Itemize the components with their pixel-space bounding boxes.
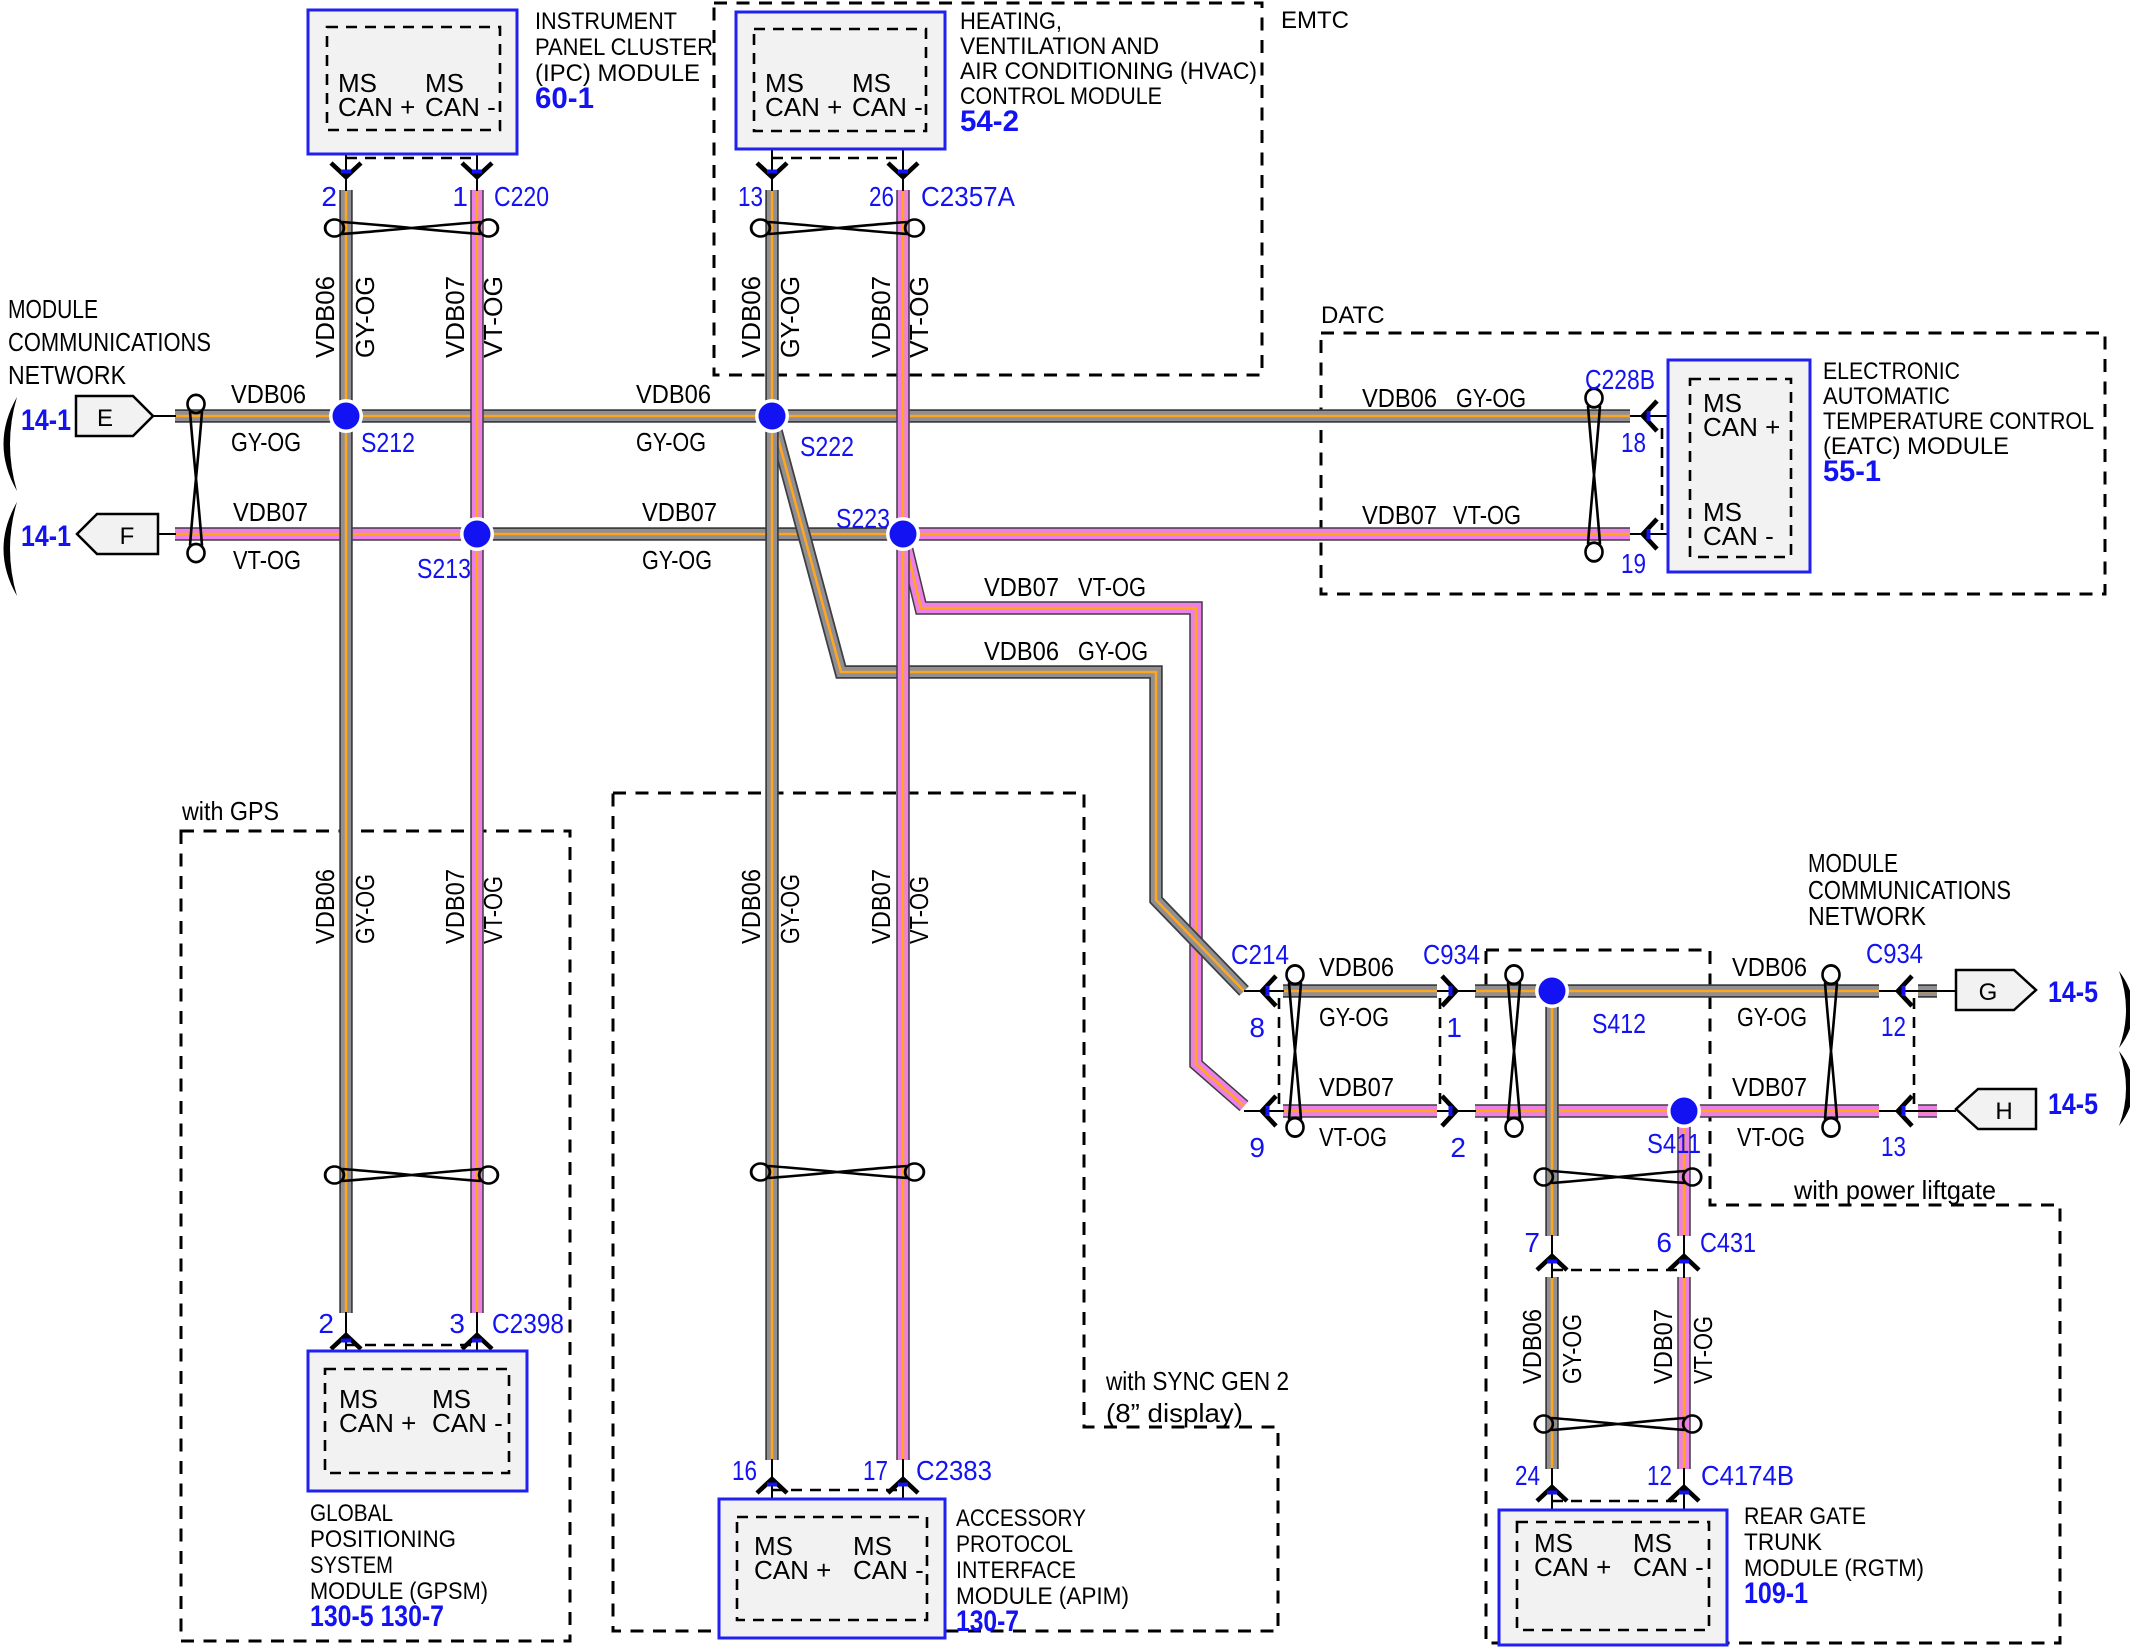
svg-text:VDB07: VDB07 bbox=[1362, 500, 1437, 530]
connector C214 face bbox=[1278, 998, 1281, 1104]
splice S213 bbox=[460, 517, 494, 551]
wire VDB06 IPC pin2 vertical bbox=[339, 190, 353, 1313]
wire lead C214 pin8 bbox=[1244, 990, 1284, 992]
wire lead C214 pin9 bbox=[1244, 1110, 1284, 1112]
HVAC module box bbox=[736, 12, 945, 149]
arrow RGTM pin12 bbox=[1669, 1487, 1699, 1501]
wire lead EATC pin19 bbox=[1630, 533, 1694, 535]
connector C934 face bbox=[1439, 998, 1442, 1104]
splice S212 bbox=[329, 399, 363, 433]
wire lead C934 pin1 bbox=[1437, 990, 1476, 992]
svg-text:GY-OG: GY-OG bbox=[775, 276, 805, 358]
EMTC dashed box bbox=[714, 3, 1262, 375]
wire VDB06 stub at G flag bbox=[1918, 984, 1937, 998]
svg-text:C2398: C2398 bbox=[492, 1308, 564, 1339]
svg-text:1: 1 bbox=[452, 181, 468, 212]
GPSM module box bbox=[308, 1351, 527, 1491]
connector C2398 face bbox=[346, 1344, 477, 1347]
wire lead EATC pin18 bbox=[1630, 415, 1694, 417]
arrow IPC pin1 bbox=[462, 163, 492, 177]
op IPC module box bbox=[308, 10, 517, 154]
svg-text:EMTC: EMTC bbox=[1281, 7, 1349, 34]
svg-text:VDB07: VDB07 bbox=[1732, 1072, 1807, 1102]
svg-text:VDB06: VDB06 bbox=[984, 636, 1059, 666]
svg-text:INSTRUMENT: INSTRUMENT bbox=[535, 8, 677, 35]
svg-text:S412: S412 bbox=[1592, 1008, 1646, 1039]
svg-text:VT-OG: VT-OG bbox=[1078, 572, 1146, 602]
connector flag F bbox=[77, 514, 158, 554]
svg-text:14-1: 14-1 bbox=[21, 404, 71, 437]
svg-text:VDB07: VDB07 bbox=[233, 497, 308, 527]
wire VDB07 stub at H flag bbox=[1918, 1104, 1937, 1118]
connector flag E bbox=[76, 396, 153, 436]
svg-text:POSITIONING: POSITIONING bbox=[310, 1526, 456, 1553]
pin lead C431 pin6 bbox=[1683, 1235, 1685, 1278]
wire VDB07 IPC pin1 vertical bbox=[470, 190, 484, 1313]
wire VDB06 C934 to C934 G bbox=[1475, 984, 1879, 998]
svg-text:VDB06: VDB06 bbox=[636, 379, 711, 409]
brace left lower bbox=[4, 502, 18, 596]
connector C228B face bbox=[1661, 428, 1664, 530]
arrow RGTM pin24 bbox=[1537, 1487, 1567, 1501]
RGTM module box bbox=[1499, 1510, 1727, 1645]
svg-text:7: 7 bbox=[1524, 1227, 1540, 1258]
svg-text:(8” display): (8” display) bbox=[1106, 1398, 1243, 1428]
APIM module box bbox=[719, 1499, 945, 1638]
pin lead IPC pin2 bbox=[345, 130, 347, 191]
DATC dashed box bbox=[1321, 333, 2105, 594]
svg-text:VT-OG: VT-OG bbox=[1319, 1122, 1387, 1152]
wire VDB07 VT-OG left segment bbox=[175, 527, 478, 541]
svg-text:19: 19 bbox=[1621, 548, 1646, 579]
svg-text:VDB07: VDB07 bbox=[866, 276, 896, 358]
svg-text:C4174B: C4174B bbox=[1701, 1460, 1794, 1491]
svg-text:VDB06: VDB06 bbox=[310, 276, 340, 358]
svg-text:CAN +: CAN + bbox=[338, 92, 415, 122]
svg-text:130-5 130-7: 130-5 130-7 bbox=[310, 1600, 444, 1633]
svg-text:C934: C934 bbox=[1866, 938, 1923, 969]
svg-text:NETWORK: NETWORK bbox=[8, 360, 127, 390]
svg-text:COMMUNICATIONS: COMMUNICATIONS bbox=[8, 327, 211, 357]
svg-text:VDB06: VDB06 bbox=[1319, 952, 1394, 982]
twisted pair before C934 G-H bbox=[1823, 965, 1840, 1136]
svg-text:1: 1 bbox=[1446, 1012, 1462, 1043]
wire lead C934 pin13 H bbox=[1879, 1110, 1956, 1112]
pin lead GPSM pin2 bbox=[345, 1312, 347, 1369]
svg-text:VENTILATION AND: VENTILATION AND bbox=[960, 33, 1159, 60]
arrow C934 pin13 bbox=[1898, 1096, 1912, 1126]
svg-text:C214: C214 bbox=[1231, 939, 1289, 970]
svg-text:2: 2 bbox=[321, 181, 337, 212]
svg-text:55-1: 55-1 bbox=[1823, 455, 1881, 488]
svg-text:GY-OG: GY-OG bbox=[1737, 1002, 1807, 1032]
svg-text:8: 8 bbox=[1249, 1012, 1265, 1043]
svg-text:CAN -: CAN - bbox=[1703, 521, 1774, 551]
twisted pair after C934 bbox=[1506, 965, 1523, 1136]
wire VDB06 GY-OG main horizontal bbox=[175, 409, 1630, 423]
svg-text:17: 17 bbox=[863, 1455, 888, 1486]
svg-text:VDB06: VDB06 bbox=[736, 276, 766, 358]
svg-text:VT-OG: VT-OG bbox=[904, 876, 934, 944]
splice S223 bbox=[886, 517, 920, 551]
svg-text:109-1: 109-1 bbox=[1744, 1577, 1808, 1610]
twisted pair above GPSM bbox=[325, 1167, 498, 1184]
HVAC module title bbox=[960, 8, 1257, 138]
brace left upper bbox=[4, 397, 18, 491]
arrow EATC pin18 bbox=[1643, 401, 1657, 431]
svg-text:CAN +: CAN + bbox=[1534, 1552, 1611, 1582]
svg-text:VDB07: VDB07 bbox=[440, 276, 470, 358]
arrow GPSM pin3 bbox=[462, 1335, 492, 1349]
svg-text:VDB06: VDB06 bbox=[1732, 952, 1807, 982]
brace right lower bbox=[2119, 1051, 2130, 1126]
brace right upper bbox=[2119, 971, 2130, 1048]
splice S222 bbox=[755, 399, 789, 433]
svg-text:PANEL CLUSTER: PANEL CLUSTER bbox=[535, 34, 713, 61]
svg-text:GY-OG: GY-OG bbox=[231, 427, 301, 457]
svg-text:54-2: 54-2 bbox=[960, 105, 1019, 138]
svg-text:VDB07: VDB07 bbox=[440, 869, 470, 944]
svg-text:VDB07: VDB07 bbox=[984, 572, 1059, 602]
svg-text:SYSTEM: SYSTEM bbox=[310, 1552, 393, 1579]
arrow C934 pin2 bbox=[1442, 1096, 1456, 1126]
svg-text:C2357A: C2357A bbox=[921, 181, 1015, 212]
svg-text:VT-OG: VT-OG bbox=[478, 876, 508, 944]
connector flag G bbox=[1956, 970, 2036, 1010]
svg-text:CAN -: CAN - bbox=[432, 1408, 503, 1438]
svg-text:INTERFACE: INTERFACE bbox=[956, 1557, 1076, 1584]
arrow C934 pin1 bbox=[1442, 976, 1456, 1006]
svg-text:VDB07: VDB07 bbox=[866, 869, 896, 944]
svg-text:14-5: 14-5 bbox=[2048, 976, 2098, 1009]
svg-text:CAN +: CAN + bbox=[1703, 412, 1780, 442]
with GPS dashed box bbox=[181, 831, 570, 1641]
wire lead F flag bbox=[158, 533, 176, 535]
svg-text:MODULE: MODULE bbox=[1808, 848, 1898, 878]
svg-text:E: E bbox=[97, 405, 113, 432]
svg-text:VDB07: VDB07 bbox=[1319, 1072, 1394, 1102]
IPC module title bbox=[535, 8, 713, 115]
twisted pair below S412 bbox=[1535, 1169, 1701, 1186]
wire VDB07 VT-OG right segment bbox=[903, 527, 1630, 541]
svg-text:3: 3 bbox=[449, 1308, 465, 1339]
svg-text:with GPS: with GPS bbox=[181, 796, 279, 826]
connector C220 face bbox=[346, 157, 477, 160]
svg-text:16: 16 bbox=[732, 1455, 757, 1486]
svg-text:GLOBAL: GLOBAL bbox=[310, 1500, 393, 1527]
splice S412 bbox=[1535, 974, 1569, 1008]
pin lead GPSM pin3 bbox=[476, 1312, 478, 1369]
svg-text:VT-OG: VT-OG bbox=[904, 276, 934, 358]
svg-text:13: 13 bbox=[1881, 1131, 1906, 1162]
svg-text:HEATING,: HEATING, bbox=[960, 8, 1062, 35]
twisted pair above APIM bbox=[751, 1164, 924, 1181]
svg-text:CAN +: CAN + bbox=[339, 1408, 416, 1438]
svg-text:C431: C431 bbox=[1700, 1227, 1756, 1258]
splice S411 bbox=[1667, 1094, 1701, 1128]
svg-text:GY-OG: GY-OG bbox=[1319, 1002, 1389, 1032]
arrow IPC pin2 bbox=[331, 163, 361, 177]
svg-text:S212: S212 bbox=[361, 427, 415, 458]
EATC module title bbox=[1823, 358, 2094, 488]
wire lead C934 pin2 bbox=[1437, 1110, 1476, 1112]
svg-text:C220: C220 bbox=[494, 181, 549, 212]
svg-text:2: 2 bbox=[1450, 1132, 1466, 1163]
with power liftgate dashed box bbox=[1486, 950, 2060, 1643]
svg-text:S411: S411 bbox=[1647, 1128, 1701, 1159]
wire lead C934 pin12 G bbox=[1879, 990, 1956, 992]
svg-text:VT-OG: VT-OG bbox=[1453, 500, 1521, 530]
svg-text:S222: S222 bbox=[800, 431, 854, 462]
wire VDB07 S411 to C431 bbox=[1677, 1111, 1691, 1236]
twisted pair at C214 bbox=[1287, 965, 1304, 1136]
svg-text:VDB06: VDB06 bbox=[1362, 383, 1437, 413]
svg-text:ELECTRONIC: ELECTRONIC bbox=[1823, 358, 1960, 385]
label module communications network left bbox=[8, 294, 211, 390]
arrow APIM pin17 bbox=[888, 1479, 918, 1493]
svg-text:VDB06: VDB06 bbox=[736, 869, 766, 944]
twisted pair at EATC bbox=[1586, 389, 1603, 562]
wire VDB06 S412 to C431 bbox=[1545, 991, 1559, 1236]
wire VDB07 VT-OG branch S223 to C214 bbox=[903, 534, 1244, 1106]
svg-text:12: 12 bbox=[1647, 1460, 1672, 1491]
svg-text:G: G bbox=[1979, 979, 1998, 1006]
svg-text:VDB06: VDB06 bbox=[310, 869, 340, 944]
svg-text:S213: S213 bbox=[417, 553, 471, 584]
svg-text:AIR CONDITIONING (HVAC): AIR CONDITIONING (HVAC) bbox=[960, 58, 1257, 85]
svg-text:CAN -: CAN - bbox=[852, 92, 923, 122]
twisted pair below HVAC bbox=[751, 220, 924, 237]
svg-text:with power liftgate: with power liftgate bbox=[1793, 1175, 1996, 1205]
svg-text:C2383: C2383 bbox=[916, 1455, 992, 1486]
EATC module box bbox=[1668, 360, 1810, 572]
svg-text:H: H bbox=[1995, 1098, 2012, 1125]
pin lead HVAC pin26 bbox=[902, 131, 904, 191]
svg-text:MODULE: MODULE bbox=[8, 294, 98, 324]
twisted pair E-F bbox=[188, 395, 205, 562]
wire VDB07 GY-OG middle segment bbox=[478, 527, 903, 541]
svg-text:13: 13 bbox=[738, 181, 763, 212]
svg-text:REAR GATE: REAR GATE bbox=[1744, 1503, 1866, 1530]
svg-text:PROTOCOL: PROTOCOL bbox=[956, 1531, 1073, 1558]
arrow APIM pin16 bbox=[757, 1479, 787, 1493]
svg-text:VDB06: VDB06 bbox=[1517, 1309, 1547, 1384]
svg-text:CAN -: CAN - bbox=[853, 1555, 924, 1585]
arrow HVAC pin13 bbox=[757, 163, 787, 177]
connector C4174B face bbox=[1552, 1500, 1684, 1503]
wire VDB06 HVAC pin13 vertical bbox=[765, 190, 779, 1460]
svg-text:AUTOMATIC: AUTOMATIC bbox=[1823, 383, 1950, 410]
wire VDB07 C934 to C934 H bbox=[1475, 1104, 1879, 1118]
svg-text:DATC: DATC bbox=[1321, 302, 1385, 329]
svg-text:TRUNK: TRUNK bbox=[1744, 1529, 1822, 1556]
svg-text:with SYNC GEN 2: with SYNC GEN 2 bbox=[1105, 1366, 1289, 1396]
svg-text:12: 12 bbox=[1881, 1011, 1906, 1042]
wire VDB06 GY-OG branch S222 to C214 bbox=[772, 416, 1244, 991]
svg-text:GY-OG: GY-OG bbox=[350, 874, 380, 944]
svg-text:C228B: C228B bbox=[1585, 364, 1655, 395]
svg-text:VT-OG: VT-OG bbox=[233, 545, 301, 575]
wire VDB06 C431 to RGTM bbox=[1545, 1277, 1559, 1469]
svg-text:GY-OG: GY-OG bbox=[1078, 636, 1148, 666]
svg-text:VT-OG: VT-OG bbox=[1737, 1122, 1805, 1152]
svg-text:GY-OG: GY-OG bbox=[636, 427, 706, 457]
wire lead E flag bbox=[153, 415, 176, 417]
arrow HVAC pin26 bbox=[888, 163, 918, 177]
with SYNC GEN 2 dashed box bbox=[613, 793, 1278, 1631]
svg-text:S223: S223 bbox=[836, 503, 890, 534]
twisted pair below IPC bbox=[325, 220, 498, 237]
arrow EATC pin19 bbox=[1643, 519, 1657, 549]
pin lead HVAC pin13 bbox=[771, 131, 773, 191]
pin lead IPC pin1 bbox=[476, 130, 478, 191]
svg-text:ACCESSORY: ACCESSORY bbox=[956, 1505, 1086, 1532]
connector flag H bbox=[1956, 1089, 2036, 1129]
svg-text:24: 24 bbox=[1515, 1460, 1540, 1491]
arrow C431 pin6 bbox=[1669, 1256, 1699, 1270]
arrow C214 pin8 bbox=[1262, 976, 1276, 1006]
svg-text:VT-OG: VT-OG bbox=[1688, 1316, 1718, 1384]
wire VDB07 HVAC pin26 vertical bbox=[896, 190, 910, 1460]
svg-text:18: 18 bbox=[1621, 427, 1646, 458]
svg-text:VT-OG: VT-OG bbox=[478, 276, 508, 358]
wire VDB07 C431 to RGTM bbox=[1677, 1277, 1691, 1469]
svg-text:VDB07: VDB07 bbox=[1648, 1309, 1678, 1384]
arrow C934 pin12 bbox=[1898, 976, 1912, 1006]
GPSM module title bbox=[310, 1500, 488, 1633]
svg-text:VDB07: VDB07 bbox=[642, 497, 717, 527]
wire VDB06 C214 to C934 bbox=[1283, 984, 1437, 998]
svg-text:9: 9 bbox=[1249, 1132, 1265, 1163]
svg-text:VDB06: VDB06 bbox=[231, 379, 306, 409]
arrow C214 pin9 bbox=[1262, 1096, 1276, 1126]
pin lead APIM pin16 bbox=[771, 1459, 773, 1517]
RGTM module title bbox=[1744, 1503, 1924, 1610]
connector C431 face bbox=[1552, 1269, 1684, 1272]
svg-text:TEMPERATURE CONTROL: TEMPERATURE CONTROL bbox=[1823, 408, 2094, 435]
svg-text:CAN +: CAN + bbox=[765, 92, 842, 122]
svg-text:2: 2 bbox=[318, 1308, 334, 1339]
svg-text:GY-OG: GY-OG bbox=[1557, 1314, 1587, 1384]
svg-text:CAN -: CAN - bbox=[425, 92, 496, 122]
arrow C431 pin7 bbox=[1537, 1256, 1567, 1270]
svg-text:14-1: 14-1 bbox=[21, 520, 71, 553]
pin lead APIM pin17 bbox=[902, 1459, 904, 1517]
svg-text:14-5: 14-5 bbox=[2048, 1088, 2098, 1121]
pin lead C431 pin7 bbox=[1551, 1235, 1553, 1278]
svg-text:GY-OG: GY-OG bbox=[1456, 383, 1526, 413]
svg-text:130-7: 130-7 bbox=[956, 1605, 1019, 1638]
connector C934 G-H face bbox=[1913, 998, 1916, 1104]
svg-text:CAN -: CAN - bbox=[1633, 1552, 1704, 1582]
svg-text:6: 6 bbox=[1656, 1227, 1672, 1258]
arrow GPSM pin2 bbox=[331, 1335, 361, 1349]
connector C2357A face bbox=[772, 157, 903, 160]
pin lead RGTM pin12 bbox=[1683, 1468, 1685, 1522]
label module communications network right bbox=[1808, 848, 2011, 931]
svg-text:F: F bbox=[120, 523, 135, 550]
pin lead RGTM pin24 bbox=[1551, 1468, 1553, 1522]
wire VDB07 C214 to C934 bbox=[1283, 1104, 1437, 1118]
svg-text:CAN +: CAN + bbox=[754, 1555, 831, 1585]
svg-text:GY-OG: GY-OG bbox=[350, 276, 380, 358]
svg-text:GY-OG: GY-OG bbox=[642, 545, 712, 575]
svg-text:26: 26 bbox=[869, 181, 894, 212]
svg-text:GY-OG: GY-OG bbox=[775, 874, 805, 944]
svg-text:NETWORK: NETWORK bbox=[1808, 901, 1927, 931]
svg-text:60-1: 60-1 bbox=[535, 82, 594, 115]
connector C2383 face bbox=[772, 1489, 903, 1492]
svg-text:C934: C934 bbox=[1423, 939, 1480, 970]
APIM module title bbox=[956, 1505, 1129, 1638]
twisted pair above RGTM bbox=[1535, 1416, 1701, 1433]
